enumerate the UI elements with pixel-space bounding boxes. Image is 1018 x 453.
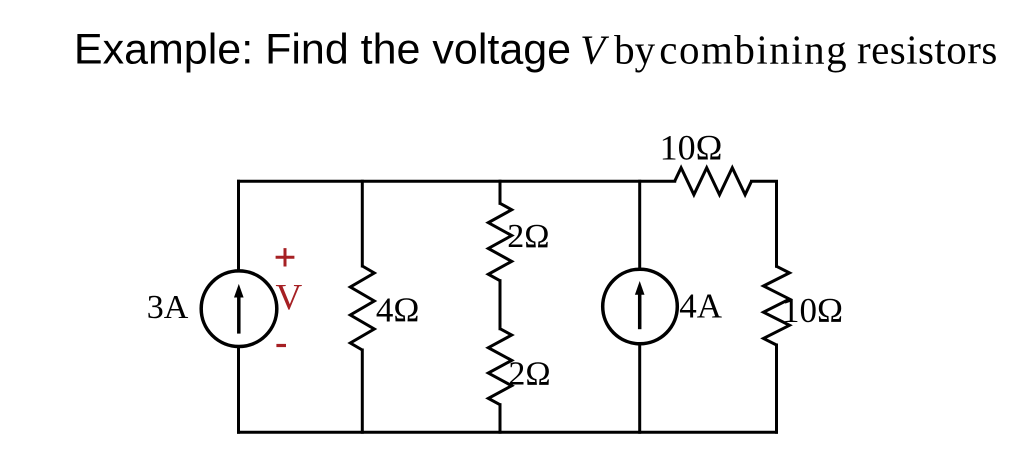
current source I1 arrowhead	[234, 284, 244, 298]
svg-text:2Ω: 2Ω	[507, 218, 549, 255]
wire branch 4A upper	[638, 181, 641, 269]
label plus red	[276, 248, 295, 266]
wire top horizontal	[239, 180, 675, 183]
wire branch 4ohm lower	[361, 350, 364, 432]
current source I1 arrow	[237, 297, 241, 334]
wire branch 2ohm middle	[499, 281, 502, 329]
wire branch 2ohm upper	[499, 181, 502, 203]
current source I2 arrowhead	[635, 281, 645, 295]
svg-text:Example: Find the voltage V by: Example: Find the voltage V by combining…	[74, 25, 998, 73]
current source I1 circle	[201, 271, 277, 347]
wire branch 2ohm lower	[499, 405, 502, 433]
svg-text:2Ω: 2Ω	[508, 355, 550, 392]
resistor 2ohm bottom zigzag	[488, 329, 511, 405]
label minus red	[276, 344, 286, 347]
wire branch 4ohm upper	[361, 181, 364, 266]
current source I2 arrow	[638, 294, 642, 329]
svg-text:4Ω: 4Ω	[376, 290, 420, 329]
wire left upper	[237, 181, 240, 271]
svg-text:4A: 4A	[679, 287, 723, 326]
current source I2 circle	[603, 269, 678, 344]
resistor 10ohm right zigzag	[764, 266, 790, 345]
svg-text:10Ω: 10Ω	[782, 291, 843, 330]
wire left lower	[237, 347, 240, 433]
wire top-right corner	[752, 181, 777, 266]
resistor 4ohm zigzag	[350, 266, 374, 350]
svg-text:V: V	[276, 278, 303, 319]
wire branch 4A lower	[638, 344, 641, 432]
svg-text:3A: 3A	[147, 289, 189, 326]
svg-text:10Ω: 10Ω	[660, 128, 723, 168]
resistor 2ohm top zigzag	[488, 203, 511, 280]
wire right lower	[775, 345, 778, 432]
wire bottom horizontal	[239, 431, 777, 434]
resistor 10ohm top zigzag	[675, 168, 752, 195]
